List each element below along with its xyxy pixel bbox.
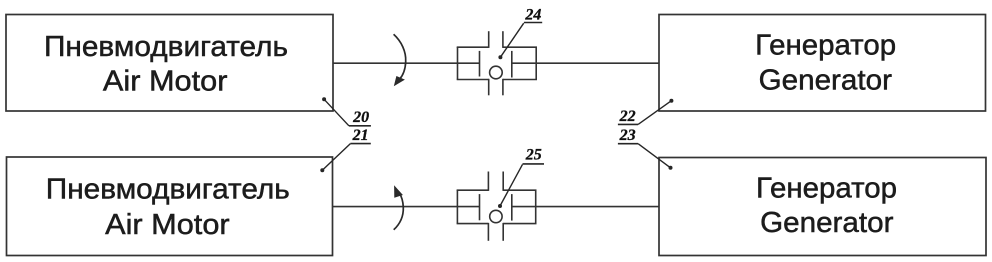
svg-text:21: 21 — [352, 127, 369, 144]
label 22 with leader — [618, 99, 674, 125]
label 21 with leader — [320, 127, 371, 172]
label 25 with leader — [498, 147, 544, 208]
rotation arrow (bottom) — [394, 192, 404, 230]
svg-text:24: 24 — [524, 6, 541, 23]
label 23 with leader — [618, 127, 673, 170]
air motor box 2 (bottom-left) — [7, 157, 333, 256]
svg-text:Generator: Generator — [760, 207, 894, 239]
generator box 2 label — [756, 172, 897, 239]
wire: bottom shaft right segment — [512, 206, 659, 208]
svg-text:Пневмодвигатель: Пневмодвигатель — [44, 31, 288, 63]
svg-text:Generator: Generator — [759, 64, 893, 96]
wire: top shaft right segment — [512, 62, 659, 64]
label 20 with leader — [322, 97, 371, 126]
air motor box 2 label — [46, 173, 290, 241]
svg-text:Air Motor: Air Motor — [103, 66, 228, 98]
svg-text:Генератор: Генератор — [756, 172, 897, 204]
label 24 with leader — [498, 6, 542, 59]
wire: top shaft left segment — [333, 62, 480, 64]
svg-text:20: 20 — [352, 109, 369, 126]
svg-text:22: 22 — [619, 108, 636, 125]
coupling 24 (top) — [457, 31, 537, 95]
wire: bottom shaft left segment — [333, 206, 480, 208]
svg-text:Пневмодвигатель: Пневмодвигатель — [46, 173, 290, 205]
svg-text:Air Motor: Air Motor — [105, 209, 230, 241]
coupling 25 (bottom) — [457, 172, 537, 241]
air motor box 1 (top-left) — [6, 15, 333, 112]
svg-text:25: 25 — [525, 147, 542, 164]
generator box 1 (top-right) — [659, 15, 986, 112]
generator box 2 (bottom-right) — [659, 158, 986, 256]
rotation arrow (top) — [394, 34, 406, 79]
generator box 1 label — [755, 29, 896, 96]
svg-text:Генератор: Генератор — [755, 29, 896, 61]
air motor box 1 label — [44, 31, 288, 98]
svg-text:23: 23 — [619, 127, 636, 144]
